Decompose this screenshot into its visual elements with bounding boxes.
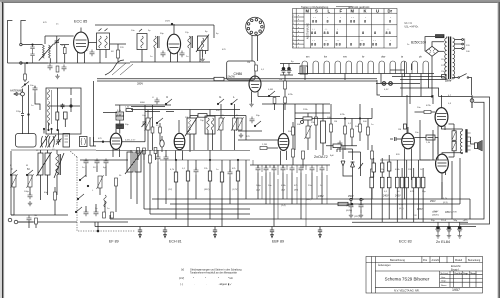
wires EBF area <box>293 104 323 168</box>
wire r30 <box>415 138 439 155</box>
resistor R50 <box>54 192 57 200</box>
gang box 2 arc <box>81 138 85 145</box>
gang box TC marks <box>65 136 69 142</box>
title right grid <box>440 271 483 287</box>
svg-text:8 8: 8 8 <box>311 43 316 47</box>
svg-text:8 8: 8 8 <box>360 43 365 47</box>
wires osc box <box>190 110 194 151</box>
EF89 pins <box>113 142 145 157</box>
tube pins b <box>171 52 178 62</box>
capacitor C21 <box>164 155 169 162</box>
svg-text:8 8: 8 8 <box>336 43 341 47</box>
svg-text:(12V): (12V) <box>354 216 360 218</box>
wire feedback <box>420 120 435 160</box>
coil T6 <box>104 195 106 207</box>
resistor RB2 upper <box>381 163 384 172</box>
svg-text:b: b <box>298 43 299 45</box>
resistor R43 inline <box>303 117 312 120</box>
resistor R53 <box>371 151 374 159</box>
ground C34 <box>447 233 451 238</box>
B+ rail lower <box>97 80 377 82</box>
svg-text:Dr: Dr <box>388 9 393 14</box>
svg-text:(1,4): (1,4) <box>281 205 286 207</box>
SECTION: table cell glyphs <box>293 15 392 49</box>
terminal B4 <box>270 227 274 238</box>
resistor R52 h <box>333 144 341 148</box>
coil M <box>27 174 34 188</box>
wire bottom rail 2 <box>130 61 210 63</box>
node dot r55 <box>351 203 353 205</box>
wire h140 <box>238 139 278 141</box>
wire r53 r54 <box>371 145 373 199</box>
coil L2 <box>154 36 156 48</box>
contact U2 <box>254 121 261 127</box>
wire r50 <box>54 187 56 215</box>
svg-text:+170V: +170V <box>451 212 458 214</box>
svg-text:6: 6 <box>293 35 294 37</box>
wires drops mid2 <box>176 150 246 227</box>
wire det top <box>326 146 361 161</box>
transformer taps <box>455 40 462 49</box>
wire diode section <box>161 136 163 152</box>
wire trimmer <box>144 105 146 142</box>
wire h111.5 <box>103 112 174 113</box>
svg-text:8: 8 <box>339 20 341 24</box>
diode D2 <box>351 162 355 171</box>
scanner top strip dark edge <box>0 2 500 3</box>
wires bank lower drops <box>372 160 423 222</box>
disc center wire <box>57 88 59 131</box>
AM IF can T5 <box>205 116 215 134</box>
wire det drops <box>258 165 322 227</box>
capacitor row C25 <box>272 166 277 173</box>
capacitor C31 <box>349 203 354 210</box>
ground G6 <box>239 133 243 138</box>
resistor R19 <box>174 172 177 182</box>
contact GL <box>156 118 163 124</box>
capacitor C5b <box>62 65 67 72</box>
svg-text:8 8: 8 8 <box>312 20 317 24</box>
bridge B250C100 <box>426 46 439 56</box>
gang trimmer <box>56 138 62 146</box>
svg-text:9: 9 <box>293 47 294 49</box>
wire h160 right <box>380 159 430 161</box>
capacitor row C28 <box>299 166 304 173</box>
core marks <box>59 154 61 175</box>
tube ECH81 <box>174 133 185 149</box>
wire EM80 grid <box>258 96 270 98</box>
discriminator box <box>46 88 81 134</box>
title outer <box>366 257 483 294</box>
svg-text:c: c <box>298 35 299 37</box>
wire antenna left <box>8 21 13 64</box>
osc transformer arrow <box>185 116 198 136</box>
wire R2 <box>110 44 126 63</box>
svg-text:(1,2V): (1,2V) <box>232 189 238 191</box>
ECC83 internals <box>403 127 414 145</box>
resistor R47 <box>359 124 362 132</box>
disc winding 2 <box>47 102 49 112</box>
capacitor C18 <box>84 210 89 217</box>
module top wire <box>80 159 128 161</box>
wire arrow antenna <box>14 93 21 96</box>
wire bridge bottom <box>431 56 433 96</box>
capacitor C14 <box>27 216 32 223</box>
svg-text:8 8: 8 8 <box>324 31 329 35</box>
wire r29 <box>415 111 436 113</box>
capacitor C5 <box>48 64 53 71</box>
rail link <box>377 80 380 95</box>
capacitor row C24 <box>264 166 269 173</box>
svg-text:a: a <box>298 27 299 29</box>
wire v311 <box>307 113 309 150</box>
IF2 arrow <box>125 150 143 174</box>
ground G4 <box>249 102 253 107</box>
svg-text:(V): (V) <box>181 269 184 272</box>
label box marks <box>117 114 123 127</box>
tube ECC85 triode b <box>167 34 180 54</box>
resistor RB12 <box>421 177 425 188</box>
switch S1 contact <box>22 82 30 88</box>
svg-text:Maßstab: Maßstab <box>441 272 450 275</box>
title bottom row <box>375 286 439 288</box>
FM transformer arrow <box>36 44 54 63</box>
svg-text:250V: 250V <box>165 21 171 23</box>
svg-text:Tonabnehmer-Anschluß an den M: Tonabnehmer-Anschluß an den Messpunkte <box>190 272 238 275</box>
ECH81 internals <box>174 120 184 148</box>
disc cap 1 <box>61 104 65 110</box>
svg-text:8: 8 <box>389 43 391 47</box>
resistor R44 <box>330 124 333 132</box>
svg-text:ABSTIMMUNG: ABSTIMMUNG <box>307 23 310 39</box>
bus y214 <box>150 213 250 215</box>
ECC83 pins <box>405 149 412 200</box>
wire to switch <box>453 78 458 79</box>
B+ rail upper <box>97 78 377 80</box>
wire h131 <box>238 130 262 132</box>
osc transformer windings <box>189 120 191 133</box>
wire bridge top <box>432 42 444 47</box>
tube EF89 <box>110 133 121 149</box>
node dipole terminal 2 <box>20 62 22 64</box>
resistor R40 inline <box>126 109 133 112</box>
svg-text:8: 8 <box>336 31 338 35</box>
wire bottom rail FM box <box>8 62 131 64</box>
svg-text:Gepr.: Gepr. <box>441 280 447 283</box>
svg-text:1M: 1M <box>247 62 250 64</box>
EBF89 internals <box>279 104 288 148</box>
svg-text:8µF: 8µF <box>330 155 334 157</box>
gang link cord <box>105 60 124 75</box>
disc cap 2 dot <box>70 105 72 107</box>
switch node <box>24 84 25 85</box>
resistor R46 <box>351 129 354 137</box>
bus y226 <box>95 226 476 228</box>
wire grid EF89 <box>94 141 111 143</box>
bus y204 right <box>342 203 460 205</box>
bus y204 left <box>170 203 250 205</box>
coil L2 core <box>158 36 160 48</box>
wire mid h <box>131 109 240 111</box>
svg-text:8: 8 <box>327 20 329 24</box>
FM input transformer windings <box>43 45 51 58</box>
variable inductor L7 <box>305 125 312 139</box>
resistor R23 <box>236 171 239 181</box>
table group line 1 <box>293 24 398 26</box>
resistor R22 <box>220 172 223 182</box>
T2 trimmer <box>139 29 142 32</box>
R56 hatch <box>452 132 455 139</box>
svg-text:ANTENNE: ANTENNE <box>10 89 23 93</box>
wire heater <box>376 83 420 85</box>
glyph ticks row1 <box>312 17 392 42</box>
terminal B2 <box>163 227 167 238</box>
capacitor C36 <box>338 141 343 148</box>
gang section 1 arcs <box>40 135 49 148</box>
rail resistor R6 <box>214 77 224 80</box>
svg-text:280V: 280V <box>137 82 143 86</box>
resistor R56 <box>452 131 456 141</box>
svg-text:(85V): (85V) <box>204 189 210 191</box>
svg-text:0,5M: 0,5M <box>268 89 273 91</box>
svg-text:70V: 70V <box>413 215 417 217</box>
wire T1 down <box>100 50 106 64</box>
svg-text:245V: 245V <box>395 195 401 198</box>
right page edge line <box>498 2 500 298</box>
wire bus corner down <box>213 25 215 38</box>
capacitor C17 <box>104 159 109 166</box>
T3 coil <box>201 38 203 50</box>
svg-text:Modell: Modell <box>455 259 463 262</box>
svg-text:Anzahl: Anzahl <box>432 259 440 262</box>
wire v295 <box>294 104 296 150</box>
wire EM80 leads <box>252 36 258 61</box>
svg-text:mw: mw <box>343 56 347 59</box>
tube internals <box>76 28 87 47</box>
svg-text:ECC 85: ECC 85 <box>74 20 87 24</box>
mains switch S2 <box>459 74 466 78</box>
electrolytic C33 <box>435 222 440 233</box>
resistor R45 <box>344 126 347 134</box>
wire C6 down <box>35 96 40 110</box>
T3 ground <box>200 57 204 62</box>
right page edge blur <box>497 2 500 298</box>
svg-text:1M: 1M <box>279 79 282 81</box>
capacitor C7 series <box>21 114 24 135</box>
svg-text:4: 4 <box>293 27 294 29</box>
resistor R4 <box>255 65 258 71</box>
resistor RB6 <box>387 177 391 188</box>
tube EL84 b <box>436 154 449 173</box>
svg-text:Dat.Nm: Dat.Nm <box>455 272 463 275</box>
EM80 internals <box>251 76 260 88</box>
svg-text:M: M <box>26 165 28 167</box>
svg-text:b: b <box>298 19 299 21</box>
svg-text:1: 1 <box>293 15 294 17</box>
coil L3 <box>188 36 190 48</box>
svg-text:250V: 250V <box>430 200 436 203</box>
wire verticals <box>131 150 144 209</box>
diode D1 <box>341 161 345 170</box>
capacitor C22 <box>250 117 255 124</box>
disc cap rect <box>64 112 68 119</box>
capacitor row C27 <box>290 166 295 173</box>
resistor R15 <box>115 178 118 186</box>
wire mains out <box>469 78 472 96</box>
svg-text:ECH 81: ECH 81 <box>169 240 182 244</box>
wire top bus 2 <box>95 24 214 26</box>
resistor R8 <box>284 97 287 103</box>
svg-text:(mV): (mV) <box>179 277 184 280</box>
electrolytic C34 <box>446 222 451 233</box>
transformer primary <box>445 38 447 79</box>
wire transformer bottom left <box>400 79 447 80</box>
gang top dots <box>43 128 44 129</box>
wire F M drops <box>14 187 30 215</box>
svg-text:Ersatz f.: Ersatz f. <box>451 268 460 271</box>
node dots rail <box>26 62 27 63</box>
svg-text:(0,1): (0,1) <box>399 208 404 210</box>
output transformer winding <box>460 131 462 154</box>
node dot module bottom <box>97 230 99 232</box>
svg-text:Osz: Osz <box>142 115 146 117</box>
output transformer core bar <box>465 129 467 152</box>
wire left col v11 <box>10 151 12 215</box>
ground G7 <box>349 213 353 218</box>
variable inductor L5 <box>97 175 104 189</box>
contact T1 <box>350 198 352 200</box>
disc winding 3 <box>47 113 49 126</box>
wire phono <box>11 215 26 222</box>
electrolytic C35 <box>457 222 462 233</box>
svg-text:2,2M: 2,2M <box>262 144 267 146</box>
svg-text:+250V: +250V <box>432 211 439 213</box>
wire L4 <box>147 110 149 150</box>
EM80 pins <box>252 92 259 103</box>
module bottom wire <box>80 222 128 231</box>
contact F <box>10 170 17 176</box>
svg-text:am: am <box>306 56 309 59</box>
capacitor row C29 <box>310 166 315 173</box>
disc stubs <box>49 88 72 130</box>
svg-text:ECC 83: ECC 83 <box>399 240 412 244</box>
capacitor C8 <box>161 51 166 58</box>
resistor RB1 upper <box>372 163 375 172</box>
contact M2 <box>77 194 84 200</box>
T5 wires <box>208 110 213 151</box>
trimmer C2 <box>54 39 60 45</box>
resistor R48 <box>367 127 370 135</box>
page left edge line <box>2 2 3 298</box>
resistor R1 <box>63 48 66 54</box>
wire AM ant down <box>22 96 24 113</box>
EL84b internals <box>437 160 447 166</box>
node HT <box>431 96 433 98</box>
capacitor C40 <box>194 168 199 175</box>
T1 coil 2 <box>105 36 107 48</box>
resistor R60 <box>154 148 157 154</box>
svg-text:12+4: 12+4 <box>441 220 447 222</box>
label box dark <box>116 124 124 129</box>
resistor R20 <box>186 171 189 181</box>
wire anode loop <box>190 116 246 153</box>
svg-text:2: 2 <box>293 19 294 21</box>
svg-text:M: M <box>306 9 310 14</box>
connector phono 1 <box>8 218 12 222</box>
svg-text:c: c <box>298 23 299 25</box>
coupling box <box>426 135 435 140</box>
svg-text:250V: 250V <box>348 195 354 198</box>
svg-text:U: U <box>376 9 379 14</box>
svg-text:Schema 7S29 Bilsoner: Schema 7S29 Bilsoner <box>385 277 430 282</box>
svg-text:(0,3): (0,3) <box>443 202 448 204</box>
wires bank upper <box>374 155 390 177</box>
wire R1 <box>60 45 69 63</box>
resistor R26 <box>292 149 295 157</box>
terminal B5 <box>318 227 322 238</box>
bus y199 right <box>342 198 470 200</box>
svg-text:F: F <box>340 9 343 14</box>
box marks <box>302 68 307 72</box>
node grid dot <box>102 141 104 143</box>
svg-text:8: 8 <box>350 43 352 47</box>
wire R5 line <box>425 37 444 52</box>
wire right border v2 <box>460 97 490 224</box>
contact M <box>26 170 33 176</box>
wire AF h204 <box>250 203 342 205</box>
disc bottom dots <box>48 129 49 130</box>
resistor R18 <box>149 155 152 163</box>
wire dipole stub 2 <box>22 62 36 64</box>
svg-text:(··): (··) <box>180 283 183 286</box>
svg-text:240V: 240V <box>383 195 389 198</box>
T1 trimmers <box>99 29 108 32</box>
wire h118 <box>295 118 372 120</box>
lamp LA2 <box>389 82 393 86</box>
EL84a internals <box>437 95 447 120</box>
svg-text:B250C100: B250C100 <box>411 41 426 45</box>
svg-text:*: * <box>205 277 206 280</box>
capacitor C20 <box>156 155 161 162</box>
svg-text:100p: 100p <box>24 191 30 193</box>
wire HT line <box>380 96 432 98</box>
table sub row ticks <box>293 17 305 44</box>
wire HT down right <box>439 97 473 109</box>
ground G2 <box>55 74 59 79</box>
wire v407 <box>406 95 408 133</box>
wire antenna right <box>21 21 26 44</box>
wire heater2 <box>400 88 439 97</box>
wire phono links <box>26 222 36 228</box>
svg-text:Name: Name <box>471 273 478 275</box>
table headers <box>306 9 393 14</box>
wire det bottoms <box>343 169 361 199</box>
capacitor C10 electrolytic <box>281 64 286 75</box>
capacitor C9 <box>180 51 185 58</box>
tube pins <box>78 43 97 63</box>
label box pair <box>116 112 124 116</box>
svg-text:EBF 89: EBF 89 <box>272 240 284 244</box>
pot arrow <box>359 161 364 169</box>
contact X <box>75 207 82 213</box>
svg-text:a: a <box>298 39 299 41</box>
coil F <box>11 174 18 188</box>
node dot top bus <box>171 23 173 25</box>
table col lines <box>296 9 384 49</box>
svg-text:(1V): (1V) <box>281 190 285 192</box>
node dot module <box>87 185 89 187</box>
wire mains routing h76.5 <box>392 76 444 78</box>
